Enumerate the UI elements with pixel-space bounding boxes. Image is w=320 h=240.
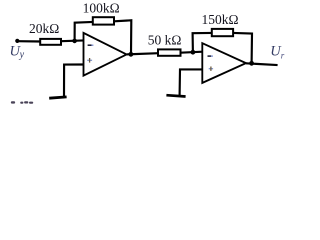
op-amp U2 [202, 43, 246, 83]
cropped caption glyph tops at bottom edge [11, 101, 15, 103]
wire U2 output [246, 63, 278, 65]
U1 plus label [87, 59, 92, 61]
resistor R3 50k [158, 49, 181, 55]
resistor R4 150k [212, 29, 233, 36]
svg-text:100kΩ: 100kΩ [83, 0, 120, 15]
wire feedback1 right-down [114, 20, 131, 54]
svg-text:150kΩ: 150kΩ [201, 12, 238, 27]
node D junction dot [249, 61, 254, 66]
resistor R1 20k [40, 39, 61, 45]
input terminal dot [15, 39, 19, 43]
svg-text:20kΩ: 20kΩ [29, 21, 59, 36]
wire U1 plus input to ground [64, 65, 84, 97]
ground G2 bar [166, 95, 185, 96]
wire feedback2 up-left [193, 33, 212, 52]
svg-text:y: y [19, 50, 25, 61]
wire U1 output to R3 [127, 53, 159, 54]
node A junction dot [72, 39, 77, 44]
wire U2 plus input to ground [180, 69, 203, 95]
U2 minus label [208, 55, 212, 57]
wire input to R1 [17, 40, 41, 42]
U1 minus label [88, 44, 92, 46]
svg-text:50 kΩ: 50 kΩ [148, 32, 182, 47]
wire R3 to U2 minus [181, 52, 203, 53]
wire R1 to U1 minus [61, 39, 84, 42]
node B junction dot [129, 52, 134, 57]
wire feedback1 up-left [75, 22, 93, 41]
op-amp U1 [84, 33, 127, 76]
ground G1 bar [49, 97, 66, 98]
U2 plus label [209, 68, 213, 70]
wire feedback2 right-down [233, 33, 252, 63]
node C junction dot [191, 50, 196, 55]
svg-text:r: r [281, 50, 285, 60]
resistor R2 100k [93, 17, 114, 24]
